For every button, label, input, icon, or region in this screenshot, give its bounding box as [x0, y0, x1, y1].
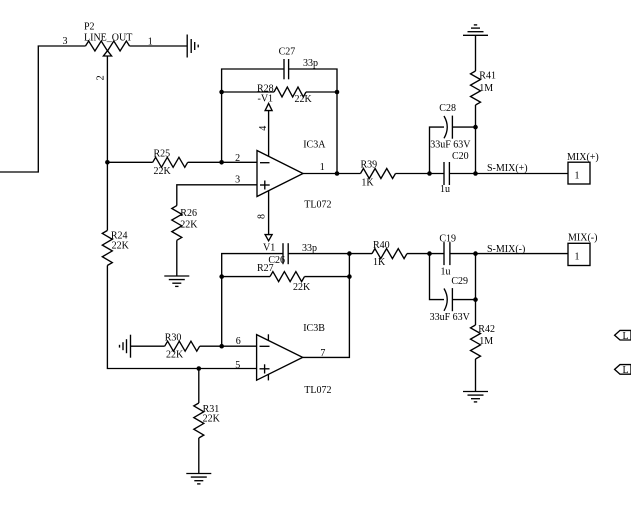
wire C20 right: [449, 173, 568, 175]
capacitor C20 1u: [440, 151, 469, 195]
net S-MIX(-): [487, 244, 525, 255]
svg-text:R42: R42: [478, 324, 495, 335]
net flag L (upper): [615, 330, 631, 341]
ground (earth, above) at R41: [463, 25, 488, 35]
wire R25 to pin2 node: [188, 161, 257, 163]
node: wiper / R25 junction: [105, 160, 110, 165]
wire R27 rail: [222, 276, 270, 278]
svg-text:2: 2: [235, 153, 240, 164]
node R31 junction: [197, 366, 202, 371]
svg-text:5: 5: [235, 360, 240, 371]
wire C26 to right vertical: [288, 253, 349, 255]
node output IC3A: [335, 171, 340, 176]
svg-text:33p: 33p: [303, 58, 318, 69]
ground (earth) below R31: [186, 474, 211, 484]
node C20 left: [427, 171, 432, 176]
svg-text:3: 3: [235, 174, 240, 185]
wire C28 branch left vertical: [430, 127, 445, 173]
wire input from left edge: [0, 46, 86, 172]
node C29 right: [473, 297, 478, 302]
wire C19 right: [450, 253, 568, 255]
node C19 left: [427, 251, 432, 256]
svg-text:V1: V1: [263, 243, 275, 254]
svg-text:R30: R30: [165, 333, 182, 344]
wire C27 to right vertical: [289, 69, 337, 174]
svg-text:1M: 1M: [479, 83, 493, 94]
ground (signal, right-pointing) at P2 pin 1: [187, 35, 198, 58]
wire IC3A output row: [303, 162, 361, 174]
svg-text:LINE_OUT: LINE_OUT: [84, 33, 132, 44]
svg-text:R27: R27: [257, 263, 274, 274]
svg-text:C19: C19: [439, 234, 456, 245]
svg-text:1: 1: [575, 171, 580, 182]
wire R39 to C20: [396, 173, 445, 175]
capacitor C19 1u: [439, 234, 456, 278]
svg-text:8: 8: [256, 214, 267, 219]
svg-text:6: 6: [236, 336, 241, 347]
svg-text:1K: 1K: [361, 178, 374, 189]
svg-text:1u: 1u: [441, 267, 451, 278]
resistor R42 1M: [471, 300, 495, 392]
svg-text:4: 4: [258, 126, 269, 131]
wire feedback left vertical IC3A: [222, 69, 284, 162]
svg-text:7: 7: [320, 348, 325, 359]
svg-text:22K: 22K: [295, 94, 313, 105]
resistor R28 22K: [257, 83, 313, 105]
svg-text:MIX(-): MIX(-): [568, 233, 597, 244]
wire R27 to right rail: [305, 276, 350, 278]
svg-text:TL072: TL072: [304, 385, 331, 396]
wire R25 row: [107, 161, 152, 163]
wire R28 to right rail: [306, 91, 337, 93]
svg-text:1M: 1M: [479, 336, 493, 347]
resistor R41 1M: [471, 71, 496, 128]
node R28 rail left: [219, 90, 224, 95]
svg-text:33p: 33p: [302, 243, 317, 254]
ground (earth) below R42: [463, 392, 488, 402]
svg-text:IC3B: IC3B: [303, 323, 325, 334]
svg-text:C28: C28: [439, 103, 456, 114]
wire right vertical IC3B output: [303, 254, 350, 358]
resistor R24 22K: [102, 231, 129, 266]
svg-text:R25: R25: [154, 149, 171, 160]
svg-text:R40: R40: [373, 240, 390, 251]
svg-text:R26: R26: [180, 208, 197, 219]
wire ground to R30: [131, 345, 165, 347]
resistor R30 22K: [165, 333, 200, 361]
power V1 arrow (pin 8): [256, 191, 275, 254]
wire R40 row: [349, 253, 444, 255]
svg-text:22K: 22K: [154, 166, 172, 177]
capacitor C26 33p: [268, 243, 317, 266]
svg-text:22K: 22K: [203, 414, 221, 425]
svg-text:22K: 22K: [112, 240, 130, 251]
wire P2 pin1 to ground: [130, 45, 188, 47]
svg-text:R39: R39: [361, 159, 378, 170]
svg-text:C27: C27: [279, 47, 296, 58]
resistor R39 1K: [361, 159, 396, 188]
wire R41 to top ground: [475, 35, 477, 71]
svg-text:S-MIX(+): S-MIX(+): [487, 163, 528, 174]
svg-text:2: 2: [96, 75, 107, 80]
wire feedback left vertical IC3B: [222, 254, 283, 347]
node C26/R40 junction: [347, 251, 352, 256]
svg-text:3: 3: [63, 36, 68, 47]
wire C29 right to R42 column: [452, 254, 475, 300]
wire pin2 stub: [235, 153, 240, 164]
svg-text:1: 1: [575, 252, 580, 263]
node R28 rail right: [335, 90, 340, 95]
resistor R27 22K: [257, 263, 311, 293]
node R27 rail left: [219, 274, 224, 279]
wire P2 wiper pin 2 down: [96, 56, 108, 231]
wire R28 rail: [222, 91, 274, 93]
ground (earth) below R26: [164, 276, 189, 286]
svg-text:22K: 22K: [180, 219, 198, 230]
wire left column to pin5 row: [107, 266, 256, 369]
svg-text:1K: 1K: [373, 257, 386, 268]
resistor R31 22K: [194, 369, 221, 474]
capacitor C28 33uF 63V: [430, 103, 471, 150]
svg-text:C20: C20: [452, 151, 469, 162]
port MIX(-): [568, 233, 597, 266]
net flag L (lower): [615, 365, 631, 376]
ground (signal, left-pointing) at R30: [120, 335, 131, 358]
node pin2 junction: [219, 160, 224, 165]
wire C28 right to R41 column: [452, 127, 475, 173]
resistor R25 22K: [153, 149, 188, 178]
wire R26 to ground: [176, 240, 178, 276]
svg-text:-V1: -V1: [258, 94, 274, 105]
node C19 right: [473, 251, 478, 256]
svg-text:1: 1: [320, 162, 325, 173]
svg-text:IC3A: IC3A: [303, 139, 326, 150]
power -V1 arrow (pin 4): [258, 94, 274, 157]
svg-text:R41: R41: [479, 71, 496, 82]
wire R30 to pin6: [200, 336, 257, 371]
node C28 right: [473, 125, 478, 130]
svg-text:1u: 1u: [440, 184, 450, 195]
port MIX(+): [567, 152, 599, 184]
svg-text:S-MIX(-): S-MIX(-): [487, 244, 525, 255]
op-amp U IC3B: [257, 323, 332, 396]
svg-text:22K: 22K: [293, 282, 311, 293]
capacitor C27 33p: [279, 47, 318, 80]
svg-text:33uF 63V: 33uF 63V: [430, 312, 471, 323]
node R27 rail right: [347, 274, 352, 279]
node pin6 junction: [219, 344, 224, 349]
svg-text:L: L: [623, 365, 629, 376]
wire pin 3 row: [177, 174, 257, 205]
resistor R26 22K: [172, 206, 199, 241]
power V1 arrow above C26: [268, 190, 270, 192]
potentiometer P2 LINE_OUT: [63, 22, 153, 57]
svg-text:P2: P2: [84, 22, 95, 33]
node C20 right: [473, 171, 478, 176]
svg-text:MIX(+): MIX(+): [567, 152, 599, 163]
resistor R40 1K: [372, 240, 407, 268]
svg-text:TL072: TL072: [304, 200, 331, 211]
capacitor C29 33uF 63V: [430, 276, 471, 323]
svg-text:33uF 63V: 33uF 63V: [430, 140, 471, 151]
net S-MIX(+): [487, 163, 528, 174]
op-amp U IC3A: [257, 139, 332, 210]
svg-text:C29: C29: [451, 276, 468, 287]
svg-text:L: L: [623, 331, 629, 342]
svg-text:22K: 22K: [166, 350, 184, 361]
wire C29 branch left vertical: [430, 254, 445, 300]
